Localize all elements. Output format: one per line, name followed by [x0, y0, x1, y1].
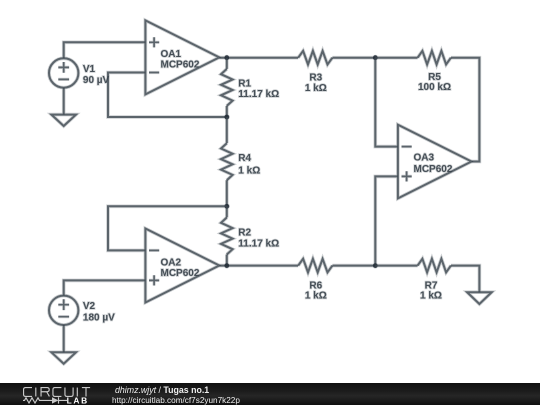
footer bar	[0, 383, 540, 405]
svg-text:R7: R7	[425, 280, 438, 291]
wire R3/R5 junction down to OA3 - input	[375, 58, 398, 147]
op-amp OA1 triangle	[145, 20, 219, 94]
resistor R4	[221, 117, 233, 206]
logo letter R	[41, 388, 49, 397]
svg-text:LAB: LAB	[67, 395, 89, 405]
wire OA1 output to R3	[219, 57, 298, 59]
label OA3 MCP602	[414, 152, 453, 175]
node junction OA2 output	[224, 263, 229, 268]
wire R3 to junction	[332, 57, 375, 59]
svg-text:1 kΩ: 1 kΩ	[305, 291, 327, 302]
resistor R7	[418, 259, 451, 273]
op-amp OA3 - input symbol	[402, 146, 412, 148]
svg-text:OA1: OA1	[161, 49, 182, 60]
svg-text:1 kΩ: 1 kΩ	[305, 83, 327, 94]
label R3 1 kΩ	[305, 72, 327, 94]
logo resistor squiggle	[23, 398, 52, 403]
wire V1 bottom to ground	[63, 88, 65, 115]
ground below V2	[51, 352, 76, 363]
op-amp OA2 + input symbol	[149, 275, 159, 285]
logo letter C	[24, 388, 32, 397]
svg-text:R3: R3	[309, 72, 322, 83]
label OA1 MCP602	[161, 49, 200, 71]
CircuitLab logo	[23, 387, 97, 405]
op-amp OA3 triangle	[398, 125, 472, 199]
logo letter I	[35, 388, 37, 397]
label V1 90 µV	[83, 64, 110, 86]
svg-text:180 µV: 180 µV	[83, 312, 115, 323]
wire V2 bottom to ground	[63, 325, 65, 352]
label R4 1 kΩ	[238, 153, 260, 177]
svg-text:MCP602: MCP602	[161, 60, 200, 71]
logo letter T	[82, 388, 90, 397]
resistor R3	[298, 51, 332, 65]
label R5 100 kΩ	[418, 72, 451, 93]
resistor R6	[298, 259, 332, 273]
svg-text:1 kΩ: 1 kΩ	[420, 291, 442, 302]
node junction R6/R7	[373, 263, 378, 268]
wire R4/R2 junction to OA2 - input	[108, 206, 227, 250]
logo letter C	[53, 388, 61, 397]
label R7 1 kΩ	[420, 280, 442, 301]
voltage source V2	[49, 296, 78, 325]
op-amp OA2 - input symbol	[149, 249, 159, 251]
credit line 2 url	[112, 396, 240, 405]
logo letter I	[76, 388, 78, 397]
svg-text:MCP602: MCP602	[414, 164, 453, 175]
svg-text:OA3: OA3	[414, 152, 435, 163]
svg-text:1 kΩ: 1 kΩ	[238, 165, 260, 176]
wire R5 feedback to OA3 output	[451, 58, 480, 162]
resistor R1	[221, 58, 233, 117]
wire junction to R5	[375, 57, 417, 59]
op-amp OA2 triangle	[145, 229, 219, 303]
svg-text:V2: V2	[83, 301, 96, 312]
svg-text:R4: R4	[238, 153, 251, 164]
credit line 1 dhimz.wjyt / Tugas no.1	[115, 386, 209, 395]
wire R7 to ground	[451, 266, 480, 293]
resistor R2	[221, 206, 233, 265]
svg-text:R6: R6	[309, 280, 322, 291]
ground below R7	[467, 292, 492, 304]
wire R6 to junction	[332, 265, 375, 267]
svg-text:R2: R2	[238, 227, 251, 238]
node junction R3/R5	[373, 55, 378, 60]
node junction R1/R4	[224, 115, 229, 120]
svg-text:11.17 kΩ: 11.17 kΩ	[238, 239, 279, 250]
svg-text:11.17 kΩ: 11.17 kΩ	[238, 89, 279, 100]
svg-text:R1: R1	[238, 78, 251, 89]
op-amp OA1 - input symbol	[149, 72, 159, 74]
svg-text:OA2: OA2	[161, 257, 182, 268]
logo letter U	[65, 388, 73, 397]
wire junction to R7	[375, 265, 417, 267]
svg-text:R5: R5	[428, 72, 441, 83]
wire OA1 - input feedback loop	[108, 73, 227, 118]
wire V1 top to OA1 + input	[64, 42, 146, 58]
svg-text:MCP602: MCP602	[161, 268, 200, 279]
svg-text:90 µV: 90 µV	[83, 75, 110, 86]
op-amp OA3 + input symbol	[402, 171, 412, 181]
resistor R5	[418, 51, 451, 65]
label R6 1 kΩ	[305, 280, 327, 301]
ground below V1	[51, 115, 76, 126]
wire OA2 output to R6	[219, 265, 298, 267]
op-amp OA1 + input symbol	[149, 37, 159, 47]
svg-text:100 kΩ: 100 kΩ	[418, 82, 451, 93]
label R2 11.17 kΩ	[238, 227, 279, 249]
label V2 180 µV	[83, 301, 115, 323]
node junction R4/R2	[224, 204, 229, 209]
label OA2 MCP602	[161, 257, 200, 279]
wire OA3 + input down to R6/R7 junction	[375, 176, 398, 265]
voltage source V1	[49, 58, 78, 87]
svg-text:V1: V1	[83, 64, 96, 75]
soft halo underlay (duplicate of schematic for blur effect)	[49, 20, 492, 363]
logo diode	[52, 397, 59, 403]
label R1 11.17 kΩ	[238, 78, 279, 100]
node junction OA1 output	[224, 55, 229, 60]
wire V2 top to OA2 + input	[64, 280, 146, 295]
